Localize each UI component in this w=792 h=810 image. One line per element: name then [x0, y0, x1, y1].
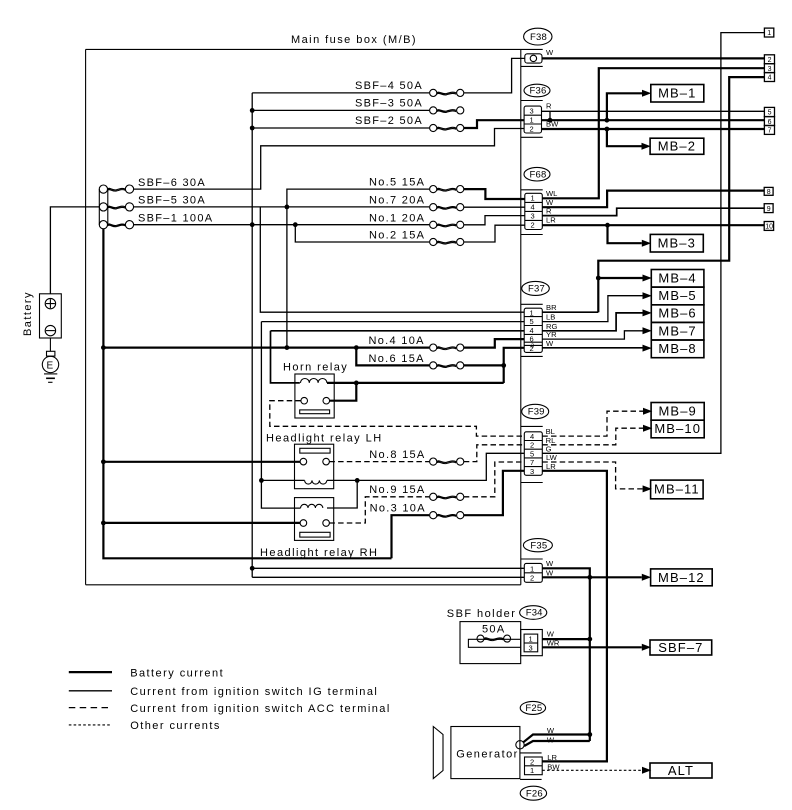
- svg-text:No.7 20A: No.7 20A: [369, 195, 425, 207]
- terminal 8: [764, 187, 773, 196]
- svg-text:R: R: [546, 207, 552, 216]
- battery bus vertical: [103, 229, 391, 559]
- fuse No.8 15A: [369, 449, 464, 465]
- svg-text:MB–11: MB–11: [654, 482, 700, 497]
- svg-text:W: W: [546, 568, 554, 577]
- SBF fuse bank bus channel: [99, 189, 108, 225]
- terminal 5: [764, 107, 774, 116]
- svg-text:Generator: Generator: [456, 749, 519, 761]
- wire generator W pair to bus: [523, 735, 589, 743]
- fuse No.7 20A: [369, 195, 464, 211]
- wire F68 LR to terminal 10: [542, 224, 764, 226]
- svg-text:4: 4: [531, 203, 535, 212]
- svg-text:No.4 10A: No.4 10A: [369, 335, 425, 347]
- svg-text:1: 1: [529, 635, 533, 644]
- box MB-12: [642, 569, 712, 586]
- terminal 6: [764, 117, 774, 126]
- svg-text:SBF–6 30A: SBF–6 30A: [138, 177, 206, 189]
- svg-text:SBF–2 50A: SBF–2 50A: [355, 115, 423, 127]
- wire F37 LB to MB-5: [542, 296, 642, 322]
- svg-text:No.1 20A: No.1 20A: [369, 212, 425, 224]
- svg-text:F34: F34: [526, 608, 543, 619]
- wire No.4 output to F37 pin6: [464, 339, 524, 348]
- wire RH contact dashed to No.9 fuse: [329, 497, 429, 523]
- wire MB-1 branch: [607, 93, 642, 120]
- fuse No.1 20A: [369, 212, 464, 228]
- svg-text:8: 8: [767, 189, 771, 196]
- wire No.7 output to F68 pin4: [464, 206, 525, 208]
- svg-text:3: 3: [768, 66, 772, 73]
- wire riser No.6 horn coil to F37 pin3: [504, 348, 525, 383]
- svg-text:2: 2: [768, 57, 772, 64]
- box MB-3: [642, 234, 704, 252]
- svg-text:Main fuse box (M/B): Main fuse box (M/B): [291, 34, 417, 46]
- wire F37 pin4 to horn relay coil: [271, 331, 525, 383]
- fuse SBF-4 50A: [355, 80, 464, 97]
- wire riser No.2 feed: [295, 225, 429, 242]
- svg-text:No.8 15A: No.8 15A: [369, 449, 425, 461]
- wire SBF-5 branch to F37 pin 1: [260, 207, 524, 312]
- wire bridge R to pin1 row: [549, 111, 551, 120]
- svg-text:5: 5: [768, 110, 772, 117]
- wire No.3 feed riser: [392, 515, 430, 558]
- wire No.6 output to riser: [464, 364, 504, 366]
- wire MB-3 branch: [608, 225, 642, 243]
- oval F26: [520, 786, 546, 800]
- svg-text:R: R: [546, 102, 552, 111]
- svg-text:2: 2: [531, 221, 535, 230]
- wire battery feed to RH contact: [103, 522, 300, 524]
- wire F36 R output to terminal 5: [542, 110, 765, 112]
- svg-text:Horn relay: Horn relay: [283, 362, 348, 374]
- terminal 3: [764, 64, 774, 73]
- wire F39 RL dashed to MB-10: [542, 428, 643, 445]
- battery: [22, 291, 61, 338]
- oval F34: [520, 606, 547, 620]
- wire LH contact dashed to No.8 fuse: [329, 461, 429, 463]
- connector F35: [521, 539, 553, 583]
- svg-text:No.6 15A: No.6 15A: [369, 353, 425, 365]
- svg-text:Current from ignition switch I: Current from ignition switch IG terminal: [130, 686, 378, 698]
- svg-text:W: W: [547, 726, 555, 735]
- svg-text:3: 3: [530, 107, 534, 116]
- svg-text:YR: YR: [546, 330, 557, 339]
- wire SBF-4 output to F38: [464, 58, 525, 93]
- wire F38 W output to terminal 2: [542, 57, 764, 59]
- wire F34 W to bus: [542, 638, 590, 640]
- wire battery feed to LH contact: [103, 461, 300, 463]
- svg-text:W: W: [547, 736, 555, 745]
- wire relay coils to F39 pin5 G: [261, 453, 524, 480]
- svg-text:W: W: [546, 48, 554, 57]
- svg-text:MB–10: MB–10: [654, 421, 701, 436]
- fuse SBF-6 30A: [99, 177, 206, 193]
- fuse No.4 10A: [369, 335, 464, 351]
- wire No.6 feed branch: [356, 348, 429, 366]
- wire F39 LR bold to generator: [542, 471, 607, 762]
- wire horn coil right to riser: [327, 382, 504, 384]
- svg-text:MB–4: MB–4: [658, 270, 696, 285]
- terminal 1: [764, 28, 773, 37]
- svg-text:5: 5: [530, 317, 534, 326]
- fuse SBF-2 50A: [355, 115, 464, 132]
- fuse SBF-3 50A: [355, 98, 464, 115]
- svg-text:7: 7: [768, 128, 772, 135]
- svg-text:9: 9: [767, 206, 771, 213]
- wire SBF-5 row to No.7 fuse: [134, 206, 430, 208]
- svg-text:Headlight relay RH: Headlight relay RH: [260, 547, 378, 559]
- svg-text:3: 3: [529, 644, 533, 653]
- ground E: [42, 338, 58, 382]
- box MB-5: [643, 287, 704, 305]
- svg-text:WL: WL: [546, 189, 557, 198]
- svg-text:BW: BW: [547, 762, 560, 771]
- oval F25: [520, 701, 545, 714]
- svg-text:SBF–3 50A: SBF–3 50A: [355, 98, 423, 110]
- svg-text:SBF–1 100A: SBF–1 100A: [138, 212, 213, 224]
- svg-text:SBF–4 50A: SBF–4 50A: [355, 80, 423, 92]
- svg-text:1: 1: [530, 116, 534, 125]
- wire F35 pin feeds: [252, 568, 524, 577]
- svg-text:W: W: [546, 559, 554, 568]
- terminal 4: [764, 73, 774, 82]
- box SBF-7: [642, 640, 712, 655]
- wire SBF-6 output to BW feed: [134, 129, 524, 190]
- svg-text:4: 4: [768, 75, 772, 82]
- wire No.1 output to F68 pin3: [464, 216, 525, 225]
- svg-text:5: 5: [530, 449, 534, 458]
- fuse No.2 15A: [369, 230, 464, 246]
- svg-text:MB–6: MB–6: [658, 306, 696, 321]
- svg-text:F36: F36: [530, 86, 547, 97]
- box MB-2: [642, 138, 704, 154]
- svg-text:LR: LR: [547, 753, 557, 762]
- box MB-1: [642, 85, 704, 103]
- box MB-9: [643, 403, 704, 421]
- box MB-11: [643, 480, 704, 499]
- svg-text:MB–7: MB–7: [658, 323, 696, 338]
- svg-text:BL: BL: [546, 427, 555, 436]
- svg-text:2: 2: [530, 757, 534, 766]
- wire terminal4 feed to F37 pin1 BR with MB-4 branch: [598, 77, 764, 312]
- svg-text:2: 2: [530, 344, 534, 353]
- generator: [433, 727, 524, 779]
- svg-text:7: 7: [530, 458, 534, 467]
- main fuse box M/B outline: [86, 34, 543, 585]
- svg-text:No.5 15A: No.5 15A: [369, 177, 425, 189]
- headlight relay LH: [266, 433, 383, 489]
- wire riser F37 pin5 to relay coils: [261, 322, 524, 509]
- svg-text:MB–1: MB–1: [658, 86, 696, 101]
- fuse No.6 15A: [369, 353, 464, 369]
- svg-text:1: 1: [530, 564, 534, 573]
- terminal 2: [764, 55, 774, 64]
- svg-text:MB–3: MB–3: [658, 236, 696, 251]
- wire F39 BL dashed to MB-9: [542, 411, 643, 436]
- svg-text:F26: F26: [526, 788, 543, 799]
- wire F36 pin1 to terminal 6: [542, 119, 765, 121]
- svg-text:6: 6: [768, 119, 772, 126]
- svg-text:LW: LW: [546, 453, 558, 462]
- svg-text:E: E: [47, 361, 54, 372]
- connector F39: [521, 404, 549, 482]
- box MB-4: [643, 270, 704, 288]
- svg-text:SBF–5 30A: SBF–5 30A: [138, 195, 206, 207]
- svg-text:F35: F35: [530, 540, 547, 551]
- wire No.4 feed line from battery bus: [103, 347, 429, 349]
- wire riser No.5 feed: [287, 189, 429, 348]
- svg-text:50A: 50A: [482, 624, 505, 636]
- svg-text:LB: LB: [546, 313, 555, 322]
- fuse SBF-5 30A: [99, 195, 206, 211]
- wire vertical A SBF-234 bus down to F35: [252, 93, 429, 577]
- box ALT: [642, 763, 712, 778]
- svg-text:2: 2: [530, 574, 534, 583]
- wire No.3 output to F39 pin3: [464, 471, 525, 515]
- svg-text:SBF–7: SBF–7: [658, 640, 703, 655]
- fuse No.3 10A: [370, 503, 464, 519]
- svg-text:SBF holder: SBF holder: [447, 608, 517, 620]
- svg-text:WR: WR: [547, 639, 560, 648]
- connector F26 bracket: [520, 753, 542, 780]
- headlight relay RH: [260, 498, 378, 559]
- terminal 7: [764, 126, 774, 135]
- svg-text:1: 1: [767, 30, 771, 37]
- svg-text:ALT: ALT: [668, 763, 694, 778]
- svg-text:6: 6: [530, 334, 534, 343]
- svg-text:No.9 15A: No.9 15A: [369, 484, 425, 496]
- svg-text:2: 2: [530, 441, 534, 450]
- svg-text:4: 4: [530, 432, 534, 441]
- wire F34 WR to SBF-7: [542, 646, 642, 648]
- svg-text:1: 1: [531, 194, 535, 203]
- svg-text:10: 10: [765, 224, 773, 231]
- svg-text:MB–9: MB–9: [659, 404, 697, 419]
- wire F39 G solid to terminal 1: [542, 33, 764, 454]
- connector F37: [521, 281, 550, 356]
- svg-text:W: W: [547, 630, 555, 639]
- wire No.2 output to F68 pin2: [464, 225, 525, 242]
- svg-text:Battery current: Battery current: [130, 667, 224, 679]
- svg-text:No.3 10A: No.3 10A: [370, 503, 426, 515]
- svg-text:F38: F38: [530, 32, 547, 43]
- legend: [69, 667, 391, 732]
- wire battery positive to fuse bank: [50, 207, 99, 294]
- box MB-8: [643, 340, 704, 358]
- svg-text:Headlight relay LH: Headlight relay LH: [266, 433, 383, 445]
- wire F36 BW to terminal 7: [542, 128, 765, 130]
- fuse No.9 15A: [369, 484, 464, 500]
- svg-text:MB–8: MB–8: [658, 341, 696, 356]
- wire F37 YR to MB-7: [542, 331, 642, 339]
- svg-text:3: 3: [531, 212, 535, 221]
- svg-text:MB–12: MB–12: [658, 570, 705, 585]
- svg-text:MB–2: MB–2: [658, 139, 696, 154]
- box MB-6: [643, 305, 704, 323]
- svg-text:W: W: [546, 339, 554, 348]
- svg-text:1: 1: [530, 766, 534, 775]
- wire SBF-1 row to No.1 fuse: [134, 224, 430, 226]
- wire F68 R to terminal 9: [542, 208, 764, 215]
- svg-text:LR: LR: [546, 462, 556, 471]
- svg-text:Other currents: Other currents: [130, 720, 221, 732]
- svg-text:MB–5: MB–5: [658, 288, 696, 303]
- connector F68: [521, 167, 550, 234]
- wire F37 W to MB-8: [542, 347, 642, 349]
- svg-text:Battery: Battery: [22, 291, 34, 336]
- svg-text:BR: BR: [546, 303, 557, 312]
- connector F38: [521, 28, 552, 66]
- wire generator BW dashed to ALT: [542, 769, 642, 771]
- wire MB-2 branch: [607, 129, 642, 146]
- wire SBF-2 output jog to F36 pin1: [464, 120, 524, 128]
- svg-text:2: 2: [530, 125, 534, 134]
- wire No.5 output to F68 pin1: [464, 189, 525, 199]
- wire F37 RG to MB-6: [542, 313, 642, 331]
- terminal 9: [764, 204, 773, 213]
- wire horn contact dashed to F39 pin4: [270, 401, 525, 436]
- wire F39 LW dashed to MB-11: [542, 462, 642, 489]
- box MB-10: [643, 420, 704, 438]
- wire F35 pin2 W to MB-12: [542, 576, 642, 578]
- wire No.9 output dashed to F39 pin7: [464, 462, 525, 497]
- horn relay: [283, 362, 348, 419]
- SBF holder F34: [447, 608, 543, 664]
- wire horn contact right up to coil wire: [330, 383, 357, 401]
- wire F68 W to terminal 8: [542, 191, 764, 208]
- fuse No.5 15A: [369, 177, 464, 193]
- svg-text:3: 3: [530, 467, 534, 476]
- connector F36: [521, 84, 550, 137]
- fuse SBF-1 100A: [99, 212, 213, 228]
- box MB-7: [643, 322, 704, 340]
- wire No.8 output dashed to F39 pin2: [464, 445, 525, 462]
- wire F68 WL to terminal 3: [542, 68, 764, 198]
- terminal 10: [764, 222, 773, 231]
- wire F35 pin1 W to vertical bus: [542, 568, 590, 741]
- svg-text:No.2 15A: No.2 15A: [369, 230, 425, 242]
- svg-text:Current from ignition switch A: Current from ignition switch ACC termina…: [130, 703, 391, 715]
- wire RH coil riser join: [327, 480, 357, 508]
- svg-text:F37: F37: [528, 284, 545, 295]
- svg-text:F25: F25: [525, 703, 542, 714]
- svg-text:G: G: [546, 444, 552, 453]
- svg-text:LR: LR: [546, 216, 556, 225]
- svg-text:F39: F39: [528, 407, 545, 418]
- svg-text:F68: F68: [530, 169, 547, 180]
